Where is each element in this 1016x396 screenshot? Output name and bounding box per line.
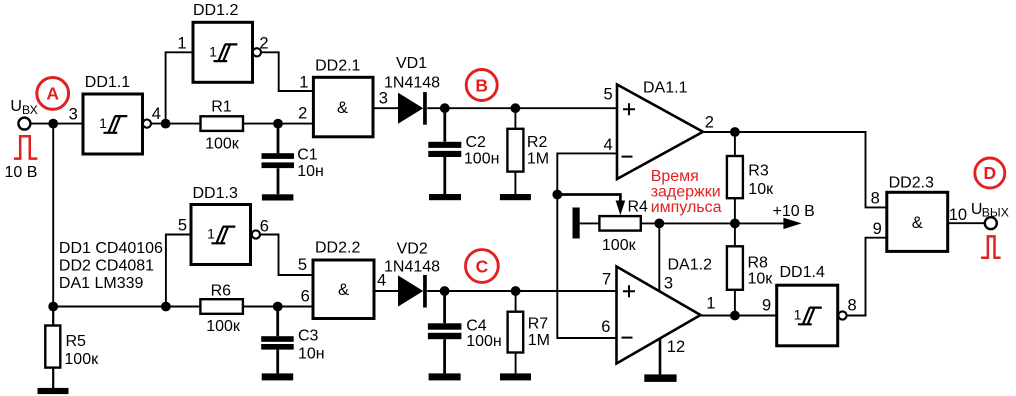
svg-text:1M: 1M: [528, 332, 550, 349]
AND gate DD2.1: [313, 77, 373, 137]
part list: [59, 240, 163, 292]
AND gate DD2.2: [313, 260, 374, 319]
junction R4 wiper: [552, 190, 562, 200]
svg-text:DD1.2: DD1.2: [193, 2, 238, 19]
wire supply DA1.2: [658, 223, 660, 291]
wire up to DD1.3: [166, 235, 191, 307]
svg-text:C1: C1: [297, 147, 318, 164]
svg-text:B: B: [475, 75, 488, 95]
svg-text:R5: R5: [66, 333, 87, 350]
svg-text:1N4148: 1N4148: [384, 258, 440, 275]
svg-text:R6: R6: [211, 283, 232, 300]
svg-text:10н: 10н: [297, 163, 324, 180]
svg-text:R3: R3: [748, 162, 769, 179]
junction R1/C1: [273, 119, 283, 129]
DD1.2 output bubble: [253, 48, 261, 56]
svg-text:1: 1: [207, 226, 215, 242]
svg-text:10к: 10к: [748, 181, 774, 198]
ground R5: [38, 388, 69, 394]
svg-text:VD1: VD1: [396, 55, 427, 72]
resistor R2: [507, 108, 549, 194]
svg-text:DD1.3: DD1.3: [193, 185, 238, 202]
svg-text:1M: 1M: [527, 150, 549, 167]
svg-text:100к: 100к: [64, 351, 99, 368]
svg-text:&: &: [912, 214, 923, 232]
svg-text:U: U: [971, 201, 983, 218]
svg-text:9: 9: [762, 296, 771, 314]
ground R2: [500, 194, 531, 200]
svg-text:DA1.2: DA1.2: [668, 257, 713, 274]
svg-text:&: &: [337, 99, 348, 117]
svg-text:3: 3: [69, 106, 78, 124]
junction R2: [511, 103, 521, 113]
resistor R7: [508, 291, 550, 373]
node A junction: [48, 119, 58, 129]
potentiometer R4: [599, 199, 648, 254]
svg-text:DD2.3: DD2.3: [889, 174, 934, 191]
junction at DD1.1 output: [161, 119, 171, 129]
svg-text:R4: R4: [628, 199, 649, 216]
wire bottom main: [53, 306, 313, 308]
junction DD1.3 feed: [161, 302, 171, 312]
svg-text:R2: R2: [527, 134, 548, 151]
svg-text:10 В: 10 В: [5, 164, 38, 181]
wire R1 to DD2.1 pin2: [243, 123, 313, 125]
output pulse symbol: [981, 236, 1001, 257]
svg-text:6: 6: [260, 217, 269, 235]
wire DD1.4 out to DD2.3 pin9: [847, 238, 887, 316]
wire DD1.2 out to DD2.1 pin1: [261, 52, 313, 91]
svg-text:10: 10: [949, 206, 967, 224]
node C circle: [466, 250, 499, 283]
svg-text:C2: C2: [466, 134, 487, 151]
svg-text:Время: Время: [651, 168, 699, 185]
svg-text:5: 5: [604, 86, 613, 104]
resistor R5: [45, 307, 99, 389]
svg-text:10к: 10к: [748, 271, 774, 288]
svg-text:DD1 CD40106: DD1 CD40106: [59, 240, 163, 257]
svg-text:1: 1: [706, 295, 715, 313]
svg-text:1N4148: 1N4148: [384, 74, 440, 91]
svg-text:4: 4: [152, 105, 161, 123]
svg-text:9: 9: [873, 220, 882, 238]
svg-text:100к: 100к: [205, 136, 240, 153]
svg-text:C: C: [476, 256, 489, 276]
output terminal Uvyx: [985, 217, 997, 229]
svg-text:100н: 100н: [466, 333, 502, 350]
ground R7: [500, 373, 531, 380]
svg-text:100к: 100к: [206, 318, 241, 335]
svg-text:1: 1: [177, 35, 186, 53]
ground DA1.2: [644, 374, 676, 382]
svg-text:3: 3: [664, 274, 673, 292]
svg-text:DA1.1: DA1.1: [643, 79, 688, 96]
svg-text:&: &: [338, 281, 349, 299]
resistor R6: [200, 283, 243, 336]
resistor R3: [727, 132, 774, 223]
svg-text:5: 5: [178, 216, 187, 234]
ground C2: [429, 194, 461, 200]
node A circle: [37, 78, 69, 110]
svg-text:импульса: импульса: [651, 199, 722, 216]
svg-text:100н: 100н: [464, 150, 500, 167]
svg-text:DD1.4: DD1.4: [780, 264, 825, 281]
svg-text:DA1 LM339: DA1 LM339: [59, 275, 144, 292]
wire R4 to rail: [641, 222, 735, 224]
svg-text:12: 12: [667, 338, 685, 356]
svg-text:задержки: задержки: [651, 183, 721, 200]
svg-text:DD2.1: DD2.1: [315, 58, 360, 75]
wire DD2.1 out to VD1: [373, 107, 398, 109]
junction rail R3: [730, 219, 740, 229]
node B circle: [466, 70, 497, 101]
svg-text:100к: 100к: [602, 237, 637, 254]
AND gate DD2.3: [887, 192, 948, 251]
schmitt trigger DD1.2: [193, 22, 253, 82]
wire up to DD1.2 input: [166, 52, 193, 123]
wire DD1.1 out to R1: [151, 123, 201, 125]
wire rail to arrow: [735, 222, 784, 224]
svg-text:C3: C3: [298, 328, 319, 345]
svg-text:A: A: [46, 84, 59, 104]
+10V arrow: [783, 218, 801, 229]
comparator DA1.2: [617, 267, 701, 364]
wire DD2.2 out to VD2: [374, 290, 398, 292]
wire DA1.1 out: [703, 132, 887, 207]
svg-text:8: 8: [848, 296, 857, 314]
schmitt trigger DD1.4: [777, 285, 838, 346]
label Uvyx: [971, 201, 1009, 219]
ground C4: [429, 373, 461, 380]
node D circle: [975, 158, 1005, 188]
svg-text:4: 4: [604, 136, 613, 154]
wire wiper to R4: [557, 195, 620, 202]
svg-text:1: 1: [209, 44, 217, 60]
svg-text:8: 8: [871, 190, 880, 208]
junction R4/DA1.2 supply: [654, 219, 664, 229]
wire DA1.2 out to DD1.4: [701, 315, 777, 317]
capacitor C1: [262, 124, 324, 195]
svg-text:5: 5: [298, 256, 307, 274]
svg-text:R7: R7: [528, 315, 549, 332]
wire ground to R4: [580, 222, 600, 224]
junction C2: [440, 103, 450, 113]
svg-text:6: 6: [301, 288, 310, 306]
junction C3: [273, 302, 283, 312]
capacitor C2: [428, 108, 499, 194]
svg-text:DD2 CD4081: DD2 CD4081: [59, 257, 154, 274]
svg-text:ВЫХ: ВЫХ: [982, 205, 1009, 219]
wire input to DD1.1: [31, 123, 84, 125]
junction R3 top: [730, 127, 740, 137]
diode VD2: [384, 240, 440, 307]
schmitt trigger DD1.1: [83, 94, 143, 154]
wire DA1.1 pin4 to R4 wiper net: [557, 153, 617, 338]
wire DD1.3 out to DD2.2 pin5: [260, 235, 313, 276]
R4 wiper arrow: [616, 201, 626, 216]
svg-text:D: D: [983, 163, 996, 183]
schmitt trigger DD1.3: [191, 205, 251, 265]
svg-text:2: 2: [259, 35, 268, 53]
junction R7: [511, 286, 521, 296]
svg-text:6: 6: [601, 318, 610, 336]
resistor R8: [727, 223, 773, 315]
DD1.4 output bubble: [838, 311, 846, 319]
svg-text:ВХ: ВХ: [22, 103, 38, 117]
wire DD2.3 out: [948, 222, 985, 224]
svg-text:DD2.2: DD2.2: [315, 240, 360, 257]
svg-text:2: 2: [298, 105, 307, 123]
svg-text:U: U: [10, 98, 22, 115]
ground C1: [262, 194, 294, 200]
wire VD1 to DA1.1 pin5: [427, 107, 617, 109]
junction R5: [48, 302, 58, 312]
svg-text:1: 1: [794, 307, 802, 323]
svg-text:7: 7: [602, 270, 611, 288]
wire VD2 to DA1.2 pin7: [427, 290, 616, 292]
svg-text:R8: R8: [748, 255, 769, 272]
junction C4: [440, 286, 450, 296]
svg-text:3: 3: [379, 89, 388, 107]
DD1.3 output bubble: [252, 230, 260, 238]
wire DA1.2 ground: [659, 338, 662, 374]
svg-text:R1: R1: [211, 99, 232, 116]
svg-text:C4: C4: [466, 317, 487, 334]
DD1.1 output bubble: [143, 120, 151, 128]
svg-text:DD1.1: DD1.1: [85, 74, 130, 91]
svg-text:2: 2: [705, 114, 714, 132]
ground C3: [262, 373, 294, 380]
wire node A down: [52, 124, 54, 307]
resistor R1: [201, 99, 244, 153]
svg-text:1: 1: [299, 73, 308, 91]
label Uvx: [10, 98, 37, 117]
diode VD1: [384, 55, 440, 125]
input pulse symbol: [14, 136, 38, 158]
svg-text:10н: 10н: [298, 345, 325, 362]
svg-text:1: 1: [99, 115, 107, 131]
capacitor C3: [261, 307, 324, 374]
svg-text:+10 В: +10 В: [773, 203, 815, 220]
capacitor C4: [428, 291, 502, 373]
comparator DA1.1: [617, 85, 703, 180]
junction R8 bottom: [730, 311, 740, 321]
svg-text:VD2: VD2: [397, 240, 428, 257]
input terminal Uvx: [18, 118, 30, 130]
ground R4 (vertical bar): [573, 208, 580, 239]
